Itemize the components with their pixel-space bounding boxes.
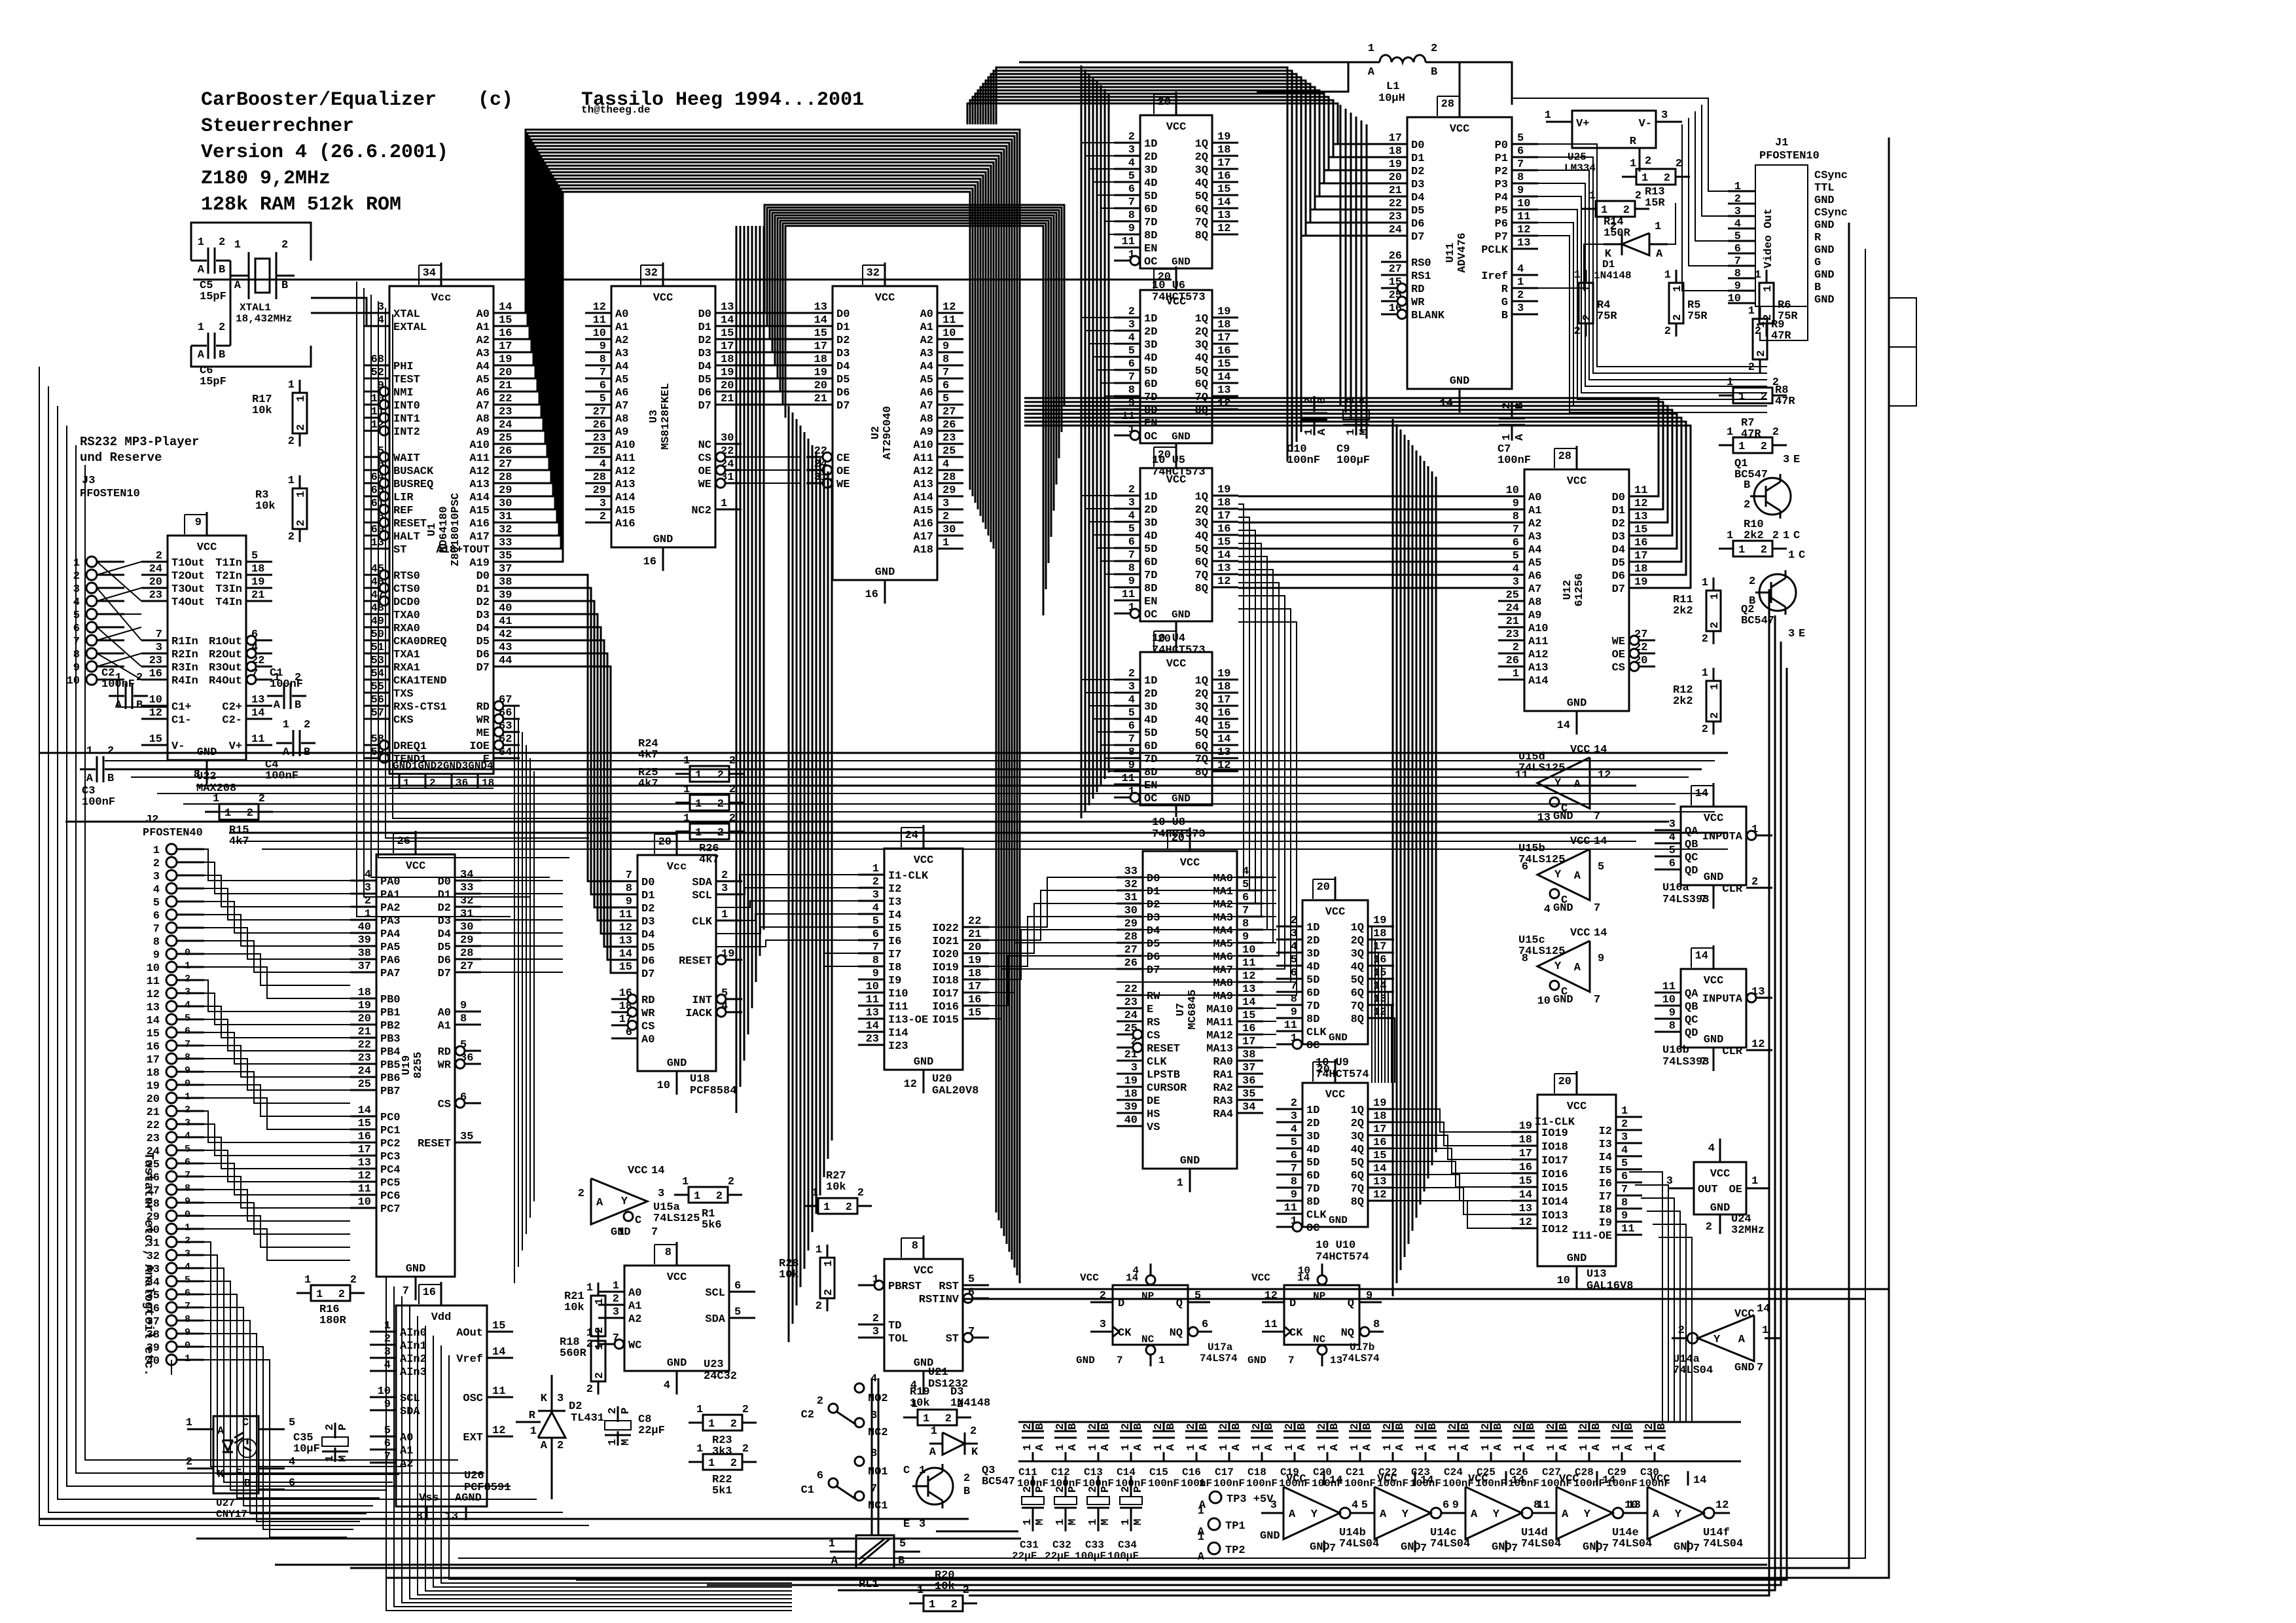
svg-text:A7: A7 bbox=[476, 400, 490, 412]
svg-text:D0: D0 bbox=[1411, 139, 1424, 152]
svg-text:C33: C33 bbox=[1085, 1539, 1104, 1551]
svg-text:A: A bbox=[1296, 1444, 1308, 1451]
svg-text:74HCT573: 74HCT573 bbox=[1152, 644, 1206, 657]
svg-text:7: 7 bbox=[1517, 158, 1524, 171]
svg-text:39: 39 bbox=[358, 934, 371, 947]
svg-text:DREQ1: DREQ1 bbox=[393, 740, 427, 753]
svg-text:4: 4 bbox=[1513, 563, 1519, 575]
test point TP2 bbox=[1198, 1531, 1246, 1563]
svg-text:74LS125: 74LS125 bbox=[1518, 945, 1565, 958]
svg-text:6: 6 bbox=[872, 928, 879, 941]
svg-text:RD: RD bbox=[641, 994, 655, 1007]
svg-text:2: 2 bbox=[1316, 1423, 1329, 1430]
svg-text:I8: I8 bbox=[1599, 1204, 1612, 1216]
svg-text:20: 20 bbox=[147, 1093, 160, 1106]
svg-text:CLK: CLK bbox=[1147, 1056, 1167, 1068]
svg-text:5Q: 5Q bbox=[1195, 727, 1208, 740]
svg-text:GAL20V8: GAL20V8 bbox=[932, 1085, 978, 1097]
svg-text:9: 9 bbox=[1128, 223, 1135, 235]
svg-text:15: 15 bbox=[1217, 358, 1230, 371]
svg-text:B: B bbox=[1814, 282, 1821, 294]
svg-text:2: 2 bbox=[823, 1289, 835, 1296]
svg-text:A: A bbox=[274, 699, 281, 712]
svg-text:18: 18 bbox=[814, 354, 827, 366]
svg-text:68: 68 bbox=[371, 354, 384, 366]
svg-text:2: 2 bbox=[1131, 1036, 1138, 1048]
svg-text:TP2: TP2 bbox=[1225, 1544, 1246, 1557]
transistor Q1 BC547 bbox=[1734, 454, 1800, 542]
svg-text:VCC: VCC bbox=[197, 541, 217, 554]
svg-text:11: 11 bbox=[866, 994, 879, 1006]
svg-text:RXA0: RXA0 bbox=[393, 623, 420, 635]
svg-text:12: 12 bbox=[1519, 1216, 1532, 1229]
svg-text:2: 2 bbox=[288, 531, 295, 543]
svg-text:4: 4 bbox=[251, 642, 258, 654]
svg-text:13: 13 bbox=[866, 1007, 879, 1019]
svg-text:WE: WE bbox=[836, 479, 850, 491]
svg-text:A9: A9 bbox=[476, 426, 490, 439]
svg-text:16: 16 bbox=[865, 589, 878, 601]
svg-text:12: 12 bbox=[619, 922, 632, 934]
svg-text:8Q: 8Q bbox=[1195, 230, 1208, 242]
svg-text:3: 3 bbox=[942, 498, 949, 510]
svg-text:13: 13 bbox=[251, 694, 264, 706]
resistor R16 180R bbox=[296, 1274, 365, 1327]
wire U11 support bbox=[1019, 62, 1512, 105]
svg-text:2: 2 bbox=[1128, 484, 1135, 496]
svg-text:OC: OC bbox=[1306, 1040, 1319, 1052]
svg-text:1: 1 bbox=[86, 745, 93, 757]
svg-text:A16: A16 bbox=[913, 518, 933, 530]
svg-text:4: 4 bbox=[153, 884, 160, 896]
svg-text:19: 19 bbox=[358, 1000, 371, 1012]
svg-text:32MHz: 32MHz bbox=[1731, 1224, 1765, 1237]
svg-text:18: 18 bbox=[1217, 681, 1230, 693]
svg-text:57: 57 bbox=[371, 707, 384, 720]
svg-text:8: 8 bbox=[185, 1183, 190, 1194]
svg-text:M: M bbox=[1034, 1519, 1047, 1525]
svg-text:B: B bbox=[1034, 1423, 1047, 1430]
svg-text:CLK: CLK bbox=[1306, 1209, 1327, 1222]
svg-text:2: 2 bbox=[1185, 1423, 1198, 1430]
svg-text:14: 14 bbox=[147, 1015, 160, 1027]
IC U13 GAL16V8 bbox=[1511, 1071, 1642, 1292]
svg-text:16: 16 bbox=[1389, 302, 1402, 315]
svg-text:VCC: VCC bbox=[1734, 1308, 1755, 1321]
svg-text:3: 3 bbox=[365, 882, 371, 894]
capacitor C7 100nF bbox=[1498, 401, 1531, 467]
svg-text:A: A bbox=[1653, 1508, 1660, 1521]
svg-text:A: A bbox=[1394, 1444, 1407, 1451]
svg-text:2: 2 bbox=[1755, 350, 1768, 357]
svg-text:7: 7 bbox=[403, 1285, 409, 1298]
svg-text:A12: A12 bbox=[1528, 649, 1549, 661]
svg-text:CLK: CLK bbox=[692, 916, 712, 928]
svg-text:22: 22 bbox=[721, 445, 734, 458]
svg-text:I4: I4 bbox=[888, 909, 901, 922]
svg-text:R: R bbox=[1501, 283, 1509, 296]
svg-text:D7: D7 bbox=[641, 968, 655, 981]
svg-text:0: 0 bbox=[185, 1340, 190, 1351]
svg-text:A14: A14 bbox=[913, 492, 933, 504]
svg-text:AGND: AGND bbox=[455, 1492, 482, 1504]
svg-text:19: 19 bbox=[1124, 1075, 1138, 1087]
resistor R3 10k bbox=[255, 475, 308, 543]
svg-text:5: 5 bbox=[1361, 1499, 1368, 1512]
svg-text:2: 2 bbox=[1761, 544, 1767, 556]
svg-text:J2: J2 bbox=[145, 814, 158, 826]
svg-text:22: 22 bbox=[1124, 983, 1138, 996]
svg-text:15: 15 bbox=[1217, 720, 1230, 733]
svg-text:5: 5 bbox=[460, 1039, 467, 1051]
svg-text:Y: Y bbox=[1311, 1508, 1318, 1521]
IC U12 RAM 61256 bbox=[1498, 446, 1655, 735]
svg-text:GND: GND bbox=[1553, 994, 1573, 1006]
svg-text:RESET: RESET bbox=[393, 518, 427, 530]
svg-text:27: 27 bbox=[1389, 263, 1402, 276]
svg-text:15: 15 bbox=[1242, 1010, 1255, 1022]
svg-text:1: 1 bbox=[683, 812, 690, 825]
svg-text:2: 2 bbox=[1100, 1290, 1106, 1302]
svg-text:29: 29 bbox=[460, 934, 473, 947]
svg-text:D6: D6 bbox=[438, 955, 451, 967]
svg-text:VCC: VCC bbox=[1468, 1473, 1488, 1486]
svg-text:8: 8 bbox=[1517, 172, 1524, 184]
svg-text:PC5: PC5 bbox=[380, 1177, 401, 1190]
IC U23 eeprom 24C32 bbox=[598, 1242, 755, 1395]
svg-text:17: 17 bbox=[619, 1013, 632, 1026]
resistor R15 4k7 bbox=[205, 793, 273, 848]
svg-text:9: 9 bbox=[872, 968, 879, 980]
svg-text:9: 9 bbox=[626, 896, 632, 908]
resistor R17 10k bbox=[252, 379, 308, 448]
svg-text:GND: GND bbox=[1710, 1202, 1731, 1214]
svg-text:1: 1 bbox=[316, 1288, 323, 1301]
svg-text:C11: C11 bbox=[1018, 1467, 1037, 1478]
svg-text:2: 2 bbox=[1480, 1423, 1492, 1430]
svg-text:37: 37 bbox=[1242, 1062, 1255, 1074]
svg-text:GND: GND bbox=[1401, 1541, 1421, 1554]
svg-text:7: 7 bbox=[1128, 196, 1135, 209]
svg-text:9: 9 bbox=[1291, 1006, 1297, 1019]
svg-text:2: 2 bbox=[1664, 172, 1670, 185]
svg-text:TEST: TEST bbox=[393, 374, 420, 386]
svg-text:4: 4 bbox=[1708, 1142, 1715, 1155]
svg-text:11: 11 bbox=[1122, 773, 1135, 785]
svg-text:SCL: SCL bbox=[692, 890, 712, 902]
svg-text:13: 13 bbox=[1242, 983, 1255, 996]
svg-text:49: 49 bbox=[371, 615, 384, 628]
svg-text:A: A bbox=[1558, 1444, 1570, 1451]
svg-text:D0: D0 bbox=[1147, 873, 1160, 885]
capacitor C2 100nF bbox=[101, 667, 148, 712]
svg-text:LM334: LM334 bbox=[1564, 162, 1596, 174]
svg-text:VCC: VCC bbox=[1325, 1089, 1346, 1101]
svg-text:RESET: RESET bbox=[679, 955, 712, 968]
svg-text:14: 14 bbox=[1373, 1163, 1386, 1175]
svg-text:OC: OC bbox=[1306, 1222, 1319, 1235]
svg-text:7Q: 7Q bbox=[1195, 570, 1208, 582]
svg-text:1: 1 bbox=[1545, 1444, 1558, 1451]
svg-text:6Q: 6Q bbox=[1195, 556, 1208, 569]
svg-text:PA2: PA2 bbox=[380, 902, 401, 915]
svg-text:1: 1 bbox=[365, 908, 371, 921]
svg-text:9: 9 bbox=[460, 1000, 467, 1012]
resistor R19 10k bbox=[903, 1386, 971, 1425]
svg-text:6: 6 bbox=[1443, 1499, 1449, 1512]
svg-text:11: 11 bbox=[942, 314, 956, 327]
svg-text:14: 14 bbox=[1242, 996, 1255, 1009]
svg-text:33: 33 bbox=[1124, 866, 1138, 878]
svg-text:7: 7 bbox=[185, 1170, 190, 1181]
svg-text:U16a: U16a bbox=[1662, 882, 1689, 894]
svg-text:21: 21 bbox=[358, 1026, 371, 1038]
svg-text:4: 4 bbox=[365, 869, 371, 881]
svg-text:ME: ME bbox=[476, 727, 490, 740]
svg-text:10: 10 bbox=[866, 981, 879, 993]
svg-text:1: 1 bbox=[185, 960, 190, 972]
svg-text:39: 39 bbox=[499, 589, 512, 602]
svg-text:3D: 3D bbox=[1306, 1131, 1319, 1143]
svg-text:D3: D3 bbox=[476, 610, 490, 622]
svg-text:100nF: 100nF bbox=[1246, 1478, 1278, 1489]
svg-text:3: 3 bbox=[872, 889, 879, 902]
svg-text:P: P bbox=[620, 1408, 632, 1414]
svg-text:6Q: 6Q bbox=[1195, 378, 1208, 391]
svg-text:2: 2 bbox=[1664, 325, 1671, 338]
svg-text:A: A bbox=[1263, 1444, 1276, 1451]
svg-text:D1: D1 bbox=[476, 583, 490, 596]
svg-text:3: 3 bbox=[557, 1393, 564, 1405]
svg-text:6: 6 bbox=[153, 910, 160, 922]
svg-text:2Q: 2Q bbox=[1195, 151, 1208, 164]
svg-text:8Q: 8Q bbox=[1351, 1013, 1364, 1026]
wire bundle bottom U13 to caps row bbox=[1629, 1172, 1692, 1422]
svg-text:30: 30 bbox=[1124, 905, 1138, 917]
svg-text:32: 32 bbox=[499, 524, 512, 536]
svg-text:1: 1 bbox=[153, 845, 160, 857]
svg-text:11: 11 bbox=[492, 1385, 505, 1398]
svg-text:CSync: CSync bbox=[1814, 207, 1848, 219]
svg-text:A: A bbox=[1316, 428, 1329, 435]
svg-text:4Q: 4Q bbox=[1195, 530, 1208, 543]
wire bus latch input verticals (8 lines) bbox=[1081, 65, 1114, 818]
shunt regulator D2 TL431 bbox=[516, 1375, 604, 1499]
svg-text:5Q: 5Q bbox=[1195, 191, 1208, 203]
svg-text:54: 54 bbox=[371, 668, 384, 680]
svg-text:D7: D7 bbox=[1411, 231, 1424, 244]
svg-text:2: 2 bbox=[945, 1413, 952, 1425]
capacitor C10 100nF bbox=[1287, 396, 1329, 467]
wire bus CPU control column down bbox=[514, 706, 534, 1283]
svg-text:CS: CS bbox=[1612, 662, 1625, 674]
svg-text:A: A bbox=[1198, 1444, 1210, 1451]
svg-text:1: 1 bbox=[1709, 684, 1721, 690]
svg-text:D7: D7 bbox=[698, 400, 711, 412]
svg-text:100nF: 100nF bbox=[270, 678, 303, 691]
svg-text:OE: OE bbox=[698, 465, 711, 478]
svg-text:Z180 9,2MHz: Z180 9,2MHz bbox=[201, 168, 331, 190]
svg-text:1: 1 bbox=[586, 1327, 593, 1340]
svg-text:10: 10 bbox=[657, 1080, 670, 1092]
svg-text:RSTINV: RSTINV bbox=[919, 1294, 960, 1306]
svg-text:100nF: 100nF bbox=[1287, 454, 1320, 467]
svg-text:B: B bbox=[1132, 1423, 1145, 1430]
svg-text:A8: A8 bbox=[920, 413, 933, 426]
svg-text:14: 14 bbox=[814, 314, 827, 327]
svg-text:C32: C32 bbox=[1052, 1539, 1071, 1551]
svg-text:AOut: AOut bbox=[456, 1327, 483, 1340]
svg-text:17: 17 bbox=[147, 1054, 160, 1067]
svg-text:A19: A19 bbox=[469, 557, 490, 570]
svg-text:1: 1 bbox=[1788, 549, 1795, 562]
svg-text:CLR: CLR bbox=[1722, 883, 1742, 896]
svg-text:4D: 4D bbox=[1144, 177, 1157, 190]
svg-text:11: 11 bbox=[1284, 1202, 1297, 1214]
svg-text:A12: A12 bbox=[615, 465, 636, 478]
svg-text:PB4: PB4 bbox=[380, 1046, 401, 1059]
svg-text:21: 21 bbox=[499, 380, 512, 392]
svg-text:V-: V- bbox=[1639, 118, 1652, 130]
svg-text:27: 27 bbox=[942, 406, 956, 418]
svg-text:2: 2 bbox=[1120, 1486, 1132, 1493]
svg-text:MA8: MA8 bbox=[1213, 977, 1233, 990]
svg-text:(c): (c) bbox=[478, 89, 513, 111]
svg-text:14: 14 bbox=[1557, 720, 1570, 732]
svg-text:IO19: IO19 bbox=[932, 962, 959, 974]
svg-text:1: 1 bbox=[384, 1320, 391, 1332]
svg-text:9: 9 bbox=[185, 1065, 190, 1076]
svg-text:PB1: PB1 bbox=[380, 1007, 401, 1019]
svg-text:74LS393: 74LS393 bbox=[1662, 1056, 1709, 1068]
svg-text:10: 10 bbox=[1662, 994, 1676, 1006]
svg-text:CS: CS bbox=[1147, 1030, 1160, 1042]
svg-text:24: 24 bbox=[905, 830, 918, 842]
svg-text:A14: A14 bbox=[469, 492, 490, 504]
svg-text:10: 10 bbox=[1298, 1265, 1310, 1277]
svg-text:3D: 3D bbox=[1306, 948, 1319, 960]
svg-text:2: 2 bbox=[1761, 441, 1767, 453]
svg-text:AT29C040: AT29C040 bbox=[882, 406, 894, 460]
svg-text:I3: I3 bbox=[888, 896, 901, 909]
svg-text:Y: Y bbox=[1402, 1508, 1409, 1521]
svg-text:2: 2 bbox=[1734, 193, 1741, 206]
svg-text:6: 6 bbox=[251, 629, 258, 641]
svg-text:B: B bbox=[1329, 1423, 1341, 1430]
svg-text:R: R bbox=[1814, 232, 1821, 244]
svg-text:45: 45 bbox=[371, 563, 384, 575]
svg-text:VCC: VCC bbox=[1286, 1473, 1306, 1486]
svg-text:B: B bbox=[1361, 1423, 1374, 1430]
svg-text:4Q: 4Q bbox=[1195, 177, 1208, 190]
svg-text:4k7: 4k7 bbox=[638, 778, 658, 790]
svg-text:B: B bbox=[1460, 1423, 1472, 1430]
svg-text:J3: J3 bbox=[82, 475, 95, 487]
svg-text:1: 1 bbox=[694, 1190, 700, 1203]
svg-text:EN: EN bbox=[1144, 596, 1157, 608]
svg-text:D4: D4 bbox=[1147, 925, 1160, 938]
svg-text:14: 14 bbox=[251, 707, 264, 720]
svg-text:16: 16 bbox=[149, 668, 162, 680]
svg-text:2: 2 bbox=[1513, 1423, 1525, 1430]
svg-text:6: 6 bbox=[1517, 145, 1524, 158]
svg-text:CKA1TEND: CKA1TEND bbox=[393, 675, 447, 687]
svg-text:7: 7 bbox=[1128, 549, 1135, 562]
svg-text:GND: GND bbox=[1704, 1034, 1724, 1046]
svg-text:D0: D0 bbox=[836, 308, 850, 321]
svg-text:2: 2 bbox=[872, 1313, 879, 1325]
svg-text:OC: OC bbox=[1144, 256, 1157, 268]
svg-text:B: B bbox=[1165, 1423, 1177, 1430]
svg-text:2: 2 bbox=[156, 550, 162, 562]
svg-text:29: 29 bbox=[942, 484, 956, 497]
svg-text:8D: 8D bbox=[1306, 1196, 1319, 1209]
svg-text:5: 5 bbox=[872, 915, 879, 928]
svg-text:2: 2 bbox=[186, 1456, 192, 1468]
svg-text:1: 1 bbox=[1655, 221, 1661, 233]
svg-text:2: 2 bbox=[219, 321, 225, 334]
svg-text:GND: GND bbox=[1814, 219, 1835, 232]
wire bus latch right columns down to U7/U9 bbox=[1117, 504, 1297, 995]
svg-text:BUSACK: BUSACK bbox=[393, 465, 434, 478]
svg-text:CKA0DREQ: CKA0DREQ bbox=[393, 636, 447, 648]
svg-text:8: 8 bbox=[1242, 918, 1249, 930]
IC U16a counter 74LS393 bbox=[1655, 783, 1772, 909]
svg-text:MA2: MA2 bbox=[1213, 899, 1233, 911]
svg-text:6: 6 bbox=[1128, 536, 1135, 549]
resistor R26 4k7 bbox=[675, 812, 744, 866]
svg-text:A11: A11 bbox=[469, 452, 490, 465]
IC U20 GAL20V8 bbox=[858, 825, 989, 1097]
svg-text:50: 50 bbox=[371, 629, 384, 641]
svg-text:VCC: VCC bbox=[1166, 658, 1187, 670]
svg-text:IO22: IO22 bbox=[932, 922, 959, 935]
svg-text:8: 8 bbox=[872, 955, 879, 967]
svg-text:9: 9 bbox=[195, 517, 202, 529]
svg-text:14: 14 bbox=[1757, 1303, 1770, 1315]
svg-text:19: 19 bbox=[251, 576, 264, 589]
svg-text:2: 2 bbox=[963, 1472, 970, 1485]
svg-text:MA9: MA9 bbox=[1213, 991, 1233, 1003]
svg-text:32: 32 bbox=[645, 267, 658, 280]
svg-text:M: M bbox=[1067, 1519, 1079, 1525]
svg-text:1: 1 bbox=[1153, 1444, 1165, 1451]
svg-text:DE: DE bbox=[1147, 1095, 1160, 1108]
svg-text:1: 1 bbox=[304, 1274, 311, 1286]
svg-text:A2: A2 bbox=[920, 335, 933, 347]
svg-text:5Q: 5Q bbox=[1351, 1157, 1364, 1169]
svg-text:IO12: IO12 bbox=[1541, 1224, 1568, 1236]
wire bus vertical column x1125 (8 lines) bbox=[736, 226, 764, 1113]
svg-text:1D: 1D bbox=[1144, 491, 1157, 503]
svg-text:7: 7 bbox=[1329, 1542, 1336, 1555]
svg-text:12: 12 bbox=[593, 301, 606, 314]
svg-text:A6: A6 bbox=[615, 387, 628, 399]
svg-text:A9: A9 bbox=[1528, 610, 1541, 622]
svg-text:6Q: 6Q bbox=[1351, 987, 1364, 1000]
svg-text:9: 9 bbox=[1366, 1290, 1372, 1302]
svg-text:13: 13 bbox=[1373, 1176, 1386, 1188]
svg-text:7: 7 bbox=[872, 941, 879, 954]
svg-text:PHI: PHI bbox=[393, 361, 414, 373]
diode D1 1N4148 bbox=[1594, 221, 1668, 282]
svg-text:20: 20 bbox=[814, 380, 827, 392]
buffer U15d 74LS125 bbox=[1515, 744, 1611, 824]
svg-text:2D: 2D bbox=[1306, 935, 1319, 947]
svg-text:A10: A10 bbox=[615, 439, 636, 452]
svg-text:IACK: IACK bbox=[685, 1008, 713, 1020]
svg-text:23: 23 bbox=[593, 432, 606, 445]
